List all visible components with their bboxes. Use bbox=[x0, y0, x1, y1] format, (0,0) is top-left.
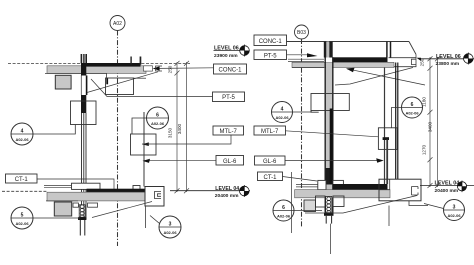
leader GL-6 left bbox=[150, 160, 217, 162]
face line right bbox=[384, 68, 386, 185]
level 06 line left bbox=[8, 63, 190, 65]
svg-text:3: 3 bbox=[453, 205, 456, 211]
mullion black stripe bbox=[330, 109, 333, 185]
slab R L06 gray bbox=[292, 62, 394, 67]
callout circle 6 bottom right bbox=[273, 200, 294, 221]
svg-text:A02-06: A02-06 bbox=[275, 115, 289, 120]
svg-text:1180: 1180 bbox=[422, 97, 427, 107]
dim chain 1 right bbox=[428, 56, 433, 188]
level 06 annotation left bbox=[214, 46, 250, 59]
L04 gray slab bbox=[47, 192, 150, 201]
leader circle 3 bbox=[150, 216, 160, 224]
grid circle A02 bbox=[110, 16, 125, 31]
roof edge diagonal bbox=[409, 42, 416, 55]
stub box right bbox=[88, 203, 98, 207]
glass sill box right bbox=[133, 186, 140, 191]
level marker L06 left bbox=[240, 45, 250, 57]
callout circle 3 right bbox=[444, 200, 465, 221]
gridline A02 (dash-dot) bbox=[117, 31, 119, 247]
mullion below pair bbox=[80, 220, 85, 236]
svg-text:3400: 3400 bbox=[177, 123, 182, 134]
svg-text:3150: 3150 bbox=[168, 127, 173, 138]
leader CT-1 right bbox=[283, 177, 318, 182]
callout circle 3 bbox=[159, 216, 181, 238]
dim chain 1 left bbox=[175, 61, 180, 193]
label PT-5 right bbox=[254, 50, 287, 60]
gray box below slab bbox=[55, 75, 71, 89]
finish band right bbox=[333, 57, 388, 62]
soffit arrow leader bbox=[347, 69, 425, 85]
bracket stem bbox=[386, 140, 388, 185]
label CT-1 left bbox=[6, 174, 38, 183]
L04 dashed level line left bbox=[2, 190, 47, 192]
leader PT-5 left bbox=[91, 79, 213, 97]
svg-text:3400: 3400 bbox=[428, 121, 433, 132]
wall line below L04 right bbox=[291, 172, 293, 233]
leader circle 6 bbox=[132, 118, 147, 134]
svg-text:1270: 1270 bbox=[422, 144, 427, 155]
svg-text:MTL-7: MTL-7 bbox=[261, 129, 279, 135]
svg-text:A02-06: A02-06 bbox=[447, 213, 461, 218]
callout circle 6 right bbox=[402, 97, 423, 118]
mullion cap right bbox=[324, 213, 334, 216]
svg-text:LEVEL 04: LEVEL 04 bbox=[215, 186, 239, 192]
curb taper diagonal bbox=[92, 202, 152, 218]
level 04 annotation left bbox=[170, 186, 250, 199]
parapet edge lines bbox=[389, 54, 417, 66]
mid bracket box bbox=[131, 134, 157, 155]
svg-text:CONC-1: CONC-1 bbox=[259, 39, 283, 45]
gridline B03 bbox=[301, 39, 303, 228]
slab L06 edge step bbox=[144, 66, 153, 71]
L04 finish lines left bbox=[44, 185, 72, 187]
slab L06 gray bbox=[47, 66, 146, 74]
leader circle 4 right bbox=[293, 111, 313, 113]
leader PT-5 right bbox=[287, 54, 309, 56]
mullion top bars bbox=[81, 54, 87, 64]
label MTL-7 right bbox=[254, 126, 286, 135]
splice box right bbox=[311, 94, 349, 111]
joint ticks on finish band bbox=[130, 57, 141, 65]
label CONC-1 left bbox=[214, 64, 247, 74]
svg-text:GL-6: GL-6 bbox=[263, 159, 277, 165]
level marker L04 right bbox=[457, 181, 466, 193]
glass line left detail bbox=[143, 112, 145, 145]
svg-text:4: 4 bbox=[281, 107, 284, 113]
L04 right finish band bbox=[333, 184, 388, 190]
svg-text:CT-1: CT-1 bbox=[15, 177, 29, 183]
taper diagonal right bbox=[335, 68, 413, 86]
svg-text:PT-5: PT-5 bbox=[222, 95, 235, 101]
boxes below L04 right bbox=[316, 196, 326, 207]
leader MTL-7 right bbox=[286, 131, 379, 137]
svg-text:A02-06: A02-06 bbox=[405, 111, 419, 116]
svg-text:B03: B03 bbox=[297, 30, 306, 36]
mullion tail right bbox=[330, 224, 332, 254]
dim chain 2 left bbox=[184, 61, 189, 193]
mullion body bbox=[81, 63, 86, 76]
head transom box bbox=[106, 78, 134, 95]
level 06 annotation right bbox=[421, 54, 474, 67]
svg-text:A02-06: A02-06 bbox=[277, 214, 291, 219]
roof line bbox=[287, 41, 410, 43]
svg-text:23800 mm: 23800 mm bbox=[436, 61, 460, 67]
mullion top bars right bbox=[326, 42, 329, 58]
diag leader L04 right bbox=[305, 196, 417, 214]
L04 right sill boxes above bbox=[318, 180, 326, 189]
leader CONC-1 left bbox=[158, 67, 214, 70]
svg-text:23900 mm: 23900 mm bbox=[214, 53, 238, 59]
svg-text:GL-6: GL-6 bbox=[223, 159, 237, 165]
svg-text:A02-06: A02-06 bbox=[15, 221, 29, 226]
soffit right bbox=[292, 67, 324, 69]
callout circle 5 bbox=[11, 207, 33, 229]
svg-text:5: 5 bbox=[21, 213, 24, 219]
finish lines left of mullion bbox=[288, 58, 324, 60]
leader circle 6 bottom bbox=[294, 210, 322, 212]
curb lower vertical bbox=[145, 206, 147, 228]
L04 finish band bbox=[87, 189, 150, 193]
edge black wedge bbox=[417, 58, 422, 61]
glass pair right bbox=[396, 63, 398, 180]
anchor hatch bbox=[79, 205, 85, 219]
mullion pair below right bbox=[326, 216, 331, 224]
callout circle 4 bbox=[11, 123, 33, 145]
svg-text:20400 mm: 20400 mm bbox=[435, 188, 459, 194]
bracket arrow bbox=[142, 142, 149, 146]
vertical below curb right bbox=[388, 206, 390, 227]
label PT-5 left bbox=[213, 92, 245, 102]
svg-text:3: 3 bbox=[169, 222, 172, 228]
slab L06 finish band bbox=[85, 63, 141, 67]
L04 curb box bbox=[145, 187, 164, 207]
leader MTL-7 left bbox=[142, 135, 231, 144]
label MTL-7 left bbox=[213, 126, 244, 135]
svg-text:A02: A02 bbox=[113, 21, 122, 27]
bracket drop line bbox=[392, 108, 403, 128]
soffit line bbox=[45, 73, 107, 78]
label GL-6 left bbox=[216, 156, 244, 166]
level marker L06 right bbox=[464, 53, 474, 65]
svg-text:CT-1: CT-1 bbox=[263, 175, 277, 181]
svg-text:MTL-7: MTL-7 bbox=[220, 129, 238, 135]
mullion body right bbox=[326, 62, 332, 214]
leader circle 3 right bbox=[424, 204, 444, 209]
svg-text:A02-06: A02-06 bbox=[15, 137, 29, 142]
mullion cap bbox=[78, 217, 86, 220]
leader CT-1 left bbox=[37, 179, 114, 191]
svg-text:250: 250 bbox=[420, 58, 425, 66]
svg-text:LEVEL 06: LEVEL 06 bbox=[436, 54, 461, 60]
L04 right finish lines bbox=[296, 184, 318, 186]
svg-text:A02-06: A02-06 bbox=[151, 121, 165, 126]
grid circle B03 bbox=[295, 25, 309, 39]
L04 right curb box bbox=[379, 179, 421, 201]
svg-text:PT-5: PT-5 bbox=[264, 53, 277, 59]
svg-text:LEVEL 04: LEVEL 04 bbox=[435, 181, 460, 187]
gray box below L04 slab bbox=[54, 202, 71, 216]
stub box left bbox=[73, 203, 78, 207]
bracket box right bbox=[378, 128, 397, 150]
leader circle 5 bbox=[33, 217, 80, 219]
svg-text:20400 mm: 20400 mm bbox=[215, 193, 239, 199]
transom tick bbox=[106, 78, 108, 84]
dim chain 2 right bbox=[435, 56, 440, 188]
L04 right gray slab bbox=[295, 190, 390, 198]
leader GL-6 right bbox=[285, 160, 378, 162]
L04 soffit line bbox=[46, 200, 78, 202]
svg-text:4: 4 bbox=[21, 129, 24, 135]
curb C profile right bbox=[412, 187, 419, 196]
leader circle 4 bbox=[33, 125, 75, 135]
svg-text:6: 6 bbox=[411, 102, 414, 108]
svg-text:6: 6 bbox=[282, 205, 285, 211]
L04 sill transom box bbox=[72, 183, 101, 189]
label CONC-1 right bbox=[254, 35, 287, 46]
level marker L04 left bbox=[240, 185, 250, 197]
level 04 annotation right bbox=[420, 181, 474, 194]
mullion dark segment above L04 bbox=[326, 168, 333, 185]
callout circle 4 right bbox=[272, 102, 293, 123]
svg-text:6: 6 bbox=[156, 113, 159, 119]
anchor hatch right bbox=[326, 197, 332, 215]
L04 right edge underlay bbox=[390, 179, 422, 201]
label CT-1 right bbox=[258, 172, 283, 181]
svg-text:CONC-1: CONC-1 bbox=[218, 68, 242, 74]
callout circle 6 bbox=[147, 107, 169, 129]
mullion splice box bbox=[71, 101, 97, 125]
taper diagonal bbox=[87, 72, 158, 93]
curb C profile bbox=[155, 192, 162, 199]
svg-text:250: 250 bbox=[168, 65, 173, 73]
curb step right bbox=[409, 201, 428, 206]
outer glass bars top bbox=[387, 42, 391, 58]
gray box below L04 right bbox=[304, 200, 316, 212]
label GL-6 right bbox=[255, 156, 286, 165]
svg-text:A02-06: A02-06 bbox=[163, 230, 177, 235]
bracket fill bbox=[383, 137, 389, 140]
